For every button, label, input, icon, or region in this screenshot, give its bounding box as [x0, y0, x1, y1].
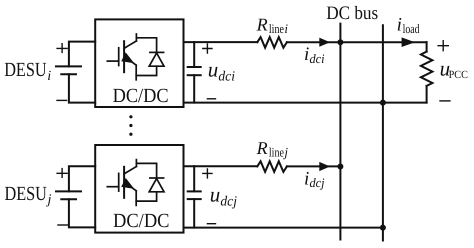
svg-text:u: u	[208, 58, 219, 82]
label u_dcj	[210, 183, 237, 210]
wire resistor j to DC bus	[287, 165, 341, 167]
minus sign battery j	[58, 224, 68, 226]
wire resistor i to DC bus	[287, 41, 427, 43]
capacitor C_j	[188, 166, 201, 227]
wire battery i bottom to DC/DC box	[69, 74, 95, 102]
resistor Rline_j	[257, 161, 287, 172]
svg-text:DC bus: DC bus	[326, 3, 378, 24]
wire battery j top to DC/DC box	[69, 166, 95, 191]
plus sign capacitor j	[203, 169, 212, 178]
junction node row i top	[337, 39, 343, 45]
plus sign load	[438, 41, 448, 51]
transistor Q_i (IGBT)	[107, 34, 136, 80]
label u_dci	[208, 58, 235, 85]
arrow i_load	[402, 37, 415, 47]
label u_PCC	[440, 56, 468, 80]
svg-text:R: R	[256, 138, 268, 158]
wire battery j bottom to DC/DC box	[69, 199, 95, 227]
wire battery i top to DC/DC box	[69, 42, 95, 67]
svg-text:DESU: DESU	[5, 183, 48, 205]
minus sign capacitor j	[207, 223, 215, 225]
svg-text:DC/DC: DC/DC	[113, 85, 169, 107]
svg-text:line: line	[269, 145, 284, 160]
label DESU_j	[5, 183, 52, 208]
bus line positive	[339, 24, 341, 240]
resistor Rline_i	[257, 37, 287, 48]
converter box U_i	[95, 19, 183, 107]
svg-text:DC/DC: DC/DC	[113, 210, 170, 232]
junction node row j top	[337, 164, 343, 170]
junction node row j bottom	[380, 225, 386, 231]
diode D_i	[136, 38, 164, 76]
svg-text:i: i	[284, 21, 288, 36]
wire load branch bottom	[426, 86, 428, 103]
wire DC/DC i to capacitor i	[184, 41, 258, 43]
label R_linej	[256, 138, 289, 160]
converter box U_j	[95, 145, 183, 233]
svg-text:DESU: DESU	[4, 59, 47, 81]
svg-text:i: i	[304, 169, 309, 190]
wire bottom rail row j	[184, 227, 383, 229]
transistor Q_j (IGBT)	[107, 160, 136, 206]
label i_dcj	[304, 169, 325, 191]
svg-text:dcj: dcj	[310, 175, 325, 190]
wire DC/DC j to capacitor j	[184, 165, 258, 167]
junction node row i bottom	[380, 100, 386, 106]
bus line negative	[382, 25, 384, 240]
plus sign battery j	[57, 169, 67, 178]
svg-text:line: line	[269, 21, 284, 36]
svg-text:i: i	[304, 44, 309, 65]
wire bottom rail row i	[184, 102, 427, 104]
battery DESU_j	[56, 191, 81, 199]
capacitor C_i	[188, 42, 201, 103]
plus sign battery i	[57, 44, 67, 53]
battery DESU_i	[56, 66, 81, 74]
svg-text:i: i	[397, 15, 402, 36]
minus sign capacitor i	[207, 98, 215, 100]
arrow i_dcj	[319, 162, 330, 171]
minus sign load	[440, 100, 450, 102]
svg-text:dcj: dcj	[220, 195, 237, 210]
diode D_j	[136, 163, 164, 201]
svg-text:PCC: PCC	[449, 69, 468, 81]
label R_linei	[256, 14, 289, 36]
wire load branch top	[426, 42, 428, 51]
svg-text:R: R	[256, 14, 268, 34]
svg-text:dci: dci	[310, 51, 325, 66]
label i_dci	[304, 44, 325, 66]
minus sign battery i	[57, 99, 67, 101]
svg-text:i: i	[47, 69, 51, 84]
svg-text:dci: dci	[218, 70, 235, 85]
label DESU_i	[4, 59, 51, 84]
resistor load	[421, 52, 433, 86]
svg-text:load: load	[403, 21, 420, 36]
svg-text:u: u	[210, 183, 221, 207]
ellipsis dots	[129, 115, 132, 136]
label i_load	[397, 15, 420, 36]
plus sign capacitor i	[203, 44, 212, 53]
arrow i_dci	[319, 38, 330, 47]
